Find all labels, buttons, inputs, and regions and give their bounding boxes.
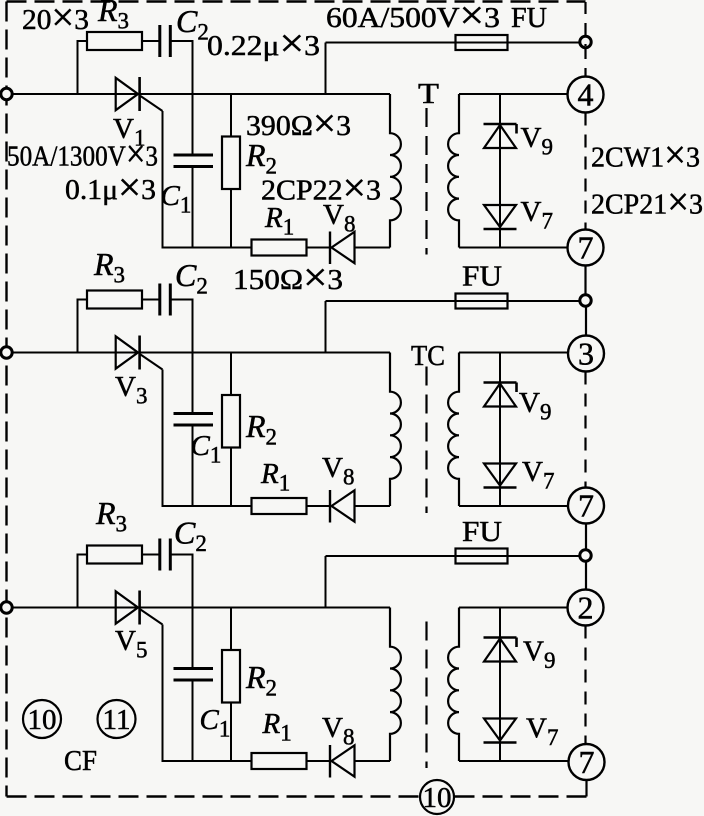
wire: fuse line section 1 xyxy=(326,42,581,44)
terminal 4 xyxy=(568,77,604,113)
capacitor C2 (section 3) xyxy=(160,539,171,571)
svg-text:7: 7 xyxy=(578,230,594,266)
svg-text:4: 4 xyxy=(578,77,594,113)
transformer secondary winding (section 2) xyxy=(448,353,459,507)
terminal 7 (section 1) xyxy=(568,230,604,266)
resistor R2 (section 1) xyxy=(222,94,240,248)
wire: dashed enclosure border (top) xyxy=(7,0,586,2)
wire: gate rail section 3 xyxy=(162,760,252,762)
diode V7 (section 2) xyxy=(484,464,517,488)
wire: V8 to transformer primary bottom section 1 xyxy=(355,247,391,249)
diode V8 (section 1) xyxy=(330,232,355,265)
svg-text:FU: FU xyxy=(462,516,502,548)
svg-text:CF: CF xyxy=(64,745,97,777)
fuse FU (section 2) xyxy=(456,294,508,309)
wire: cathode node to fuse line section 2 xyxy=(325,301,327,353)
transformer primary winding (section 3) xyxy=(390,608,401,762)
svg-text:60A/500V×​3: 60A/500V×​3 xyxy=(326,0,500,38)
wire: V9/V7 branch section 2 xyxy=(499,353,501,507)
terminal: phase input section 3 xyxy=(1,602,12,613)
wire: R1 to V8 section 2 xyxy=(307,505,332,507)
wire: dashed enclosure border (bottom) xyxy=(7,795,587,797)
wire: gate rail section 2 xyxy=(162,505,252,507)
fuse FU (section 3) xyxy=(456,549,508,564)
svg-text:2: 2 xyxy=(578,590,594,626)
wire: dashed link terminal 4 to terminal 7a xyxy=(584,113,586,230)
terminal: phase input section 2 xyxy=(1,347,12,358)
thyristor V5 (section 3) xyxy=(116,591,163,625)
node 10 (bottom border) xyxy=(420,780,454,814)
wire: link fuse terminal 2 to terminal 3 xyxy=(585,307,587,336)
wire: fuse line section 3 xyxy=(326,555,581,557)
wire: V9/V7 branch section 3 xyxy=(499,608,501,762)
wire: gate rail section 1 xyxy=(162,247,252,249)
terminal: phase input section 1 xyxy=(1,88,12,99)
resistor R3 (section 3) xyxy=(87,546,142,564)
zener diode V9 (section 1) xyxy=(484,124,517,148)
resistor R2 (section 3) xyxy=(222,608,240,762)
wire: dashed link fuse terminal 1 to terminal 4 xyxy=(584,47,586,76)
capacitor C2 (section 2) xyxy=(160,284,171,316)
wire: phase line section 2 (terminal to transformer primary) xyxy=(12,352,390,354)
wire: secondary bottom lead section 3 xyxy=(459,760,568,762)
wire: gate lead section 3 xyxy=(162,625,164,762)
transformer primary winding (section 1) xyxy=(390,94,401,248)
wire: gate lead section 1 xyxy=(162,111,164,248)
capacitor C1 (section 1) xyxy=(174,94,214,248)
fuse FU (section 1) xyxy=(456,35,508,50)
node 10 (left) xyxy=(23,700,61,738)
svg-text:3: 3 xyxy=(578,336,594,372)
wire: phase line section 3 (terminal to transformer primary) xyxy=(12,607,390,609)
svg-text:TC: TC xyxy=(411,340,445,372)
resistor R3 (section 2) xyxy=(87,291,142,309)
svg-text:20×​3: 20×​3 xyxy=(22,0,89,40)
wire: V9/V7 branch section 1 xyxy=(499,94,501,248)
transformer secondary winding (section 1) xyxy=(448,94,459,248)
resistor R1 (section 2) xyxy=(252,498,307,514)
svg-text:FU: FU xyxy=(462,261,502,293)
transformer core (section 3) xyxy=(425,622,427,769)
resistor R1 (section 3) xyxy=(252,753,307,769)
wire: fuse line section 2 xyxy=(326,300,581,302)
terminal: fuse output section 1 xyxy=(580,36,591,47)
resistor R1 (section 1) xyxy=(252,240,307,256)
wire: R3 left lead section 2 xyxy=(78,300,88,353)
wire: link terminal 7b to fuse terminal 3 xyxy=(585,524,587,552)
diode V7 (section 3) xyxy=(484,719,517,743)
capacitor C1 (section 2) xyxy=(174,353,214,507)
svg-text:7: 7 xyxy=(579,744,595,780)
wire: C2 to cathode node section 3 xyxy=(170,555,192,608)
wire: dashed link top border to fuse terminal 1 xyxy=(584,2,586,46)
terminal 3 xyxy=(568,336,604,372)
resistor R3 (section 1) xyxy=(87,32,142,50)
terminal 7 (section 2) xyxy=(568,488,604,524)
wire: gate lead section 2 xyxy=(162,370,164,507)
wire: secondary bottom lead section 1 xyxy=(459,247,568,249)
thyristor V3 (section 2) xyxy=(116,336,163,370)
terminal: fuse output section 3 xyxy=(580,550,591,561)
zener diode V9 (section 3) xyxy=(484,638,517,662)
wire: link terminal 7a to fuse terminal 2 xyxy=(584,266,586,297)
wire: C2 to cathode node section 1 xyxy=(170,41,192,94)
thyristor V1 (section 1) xyxy=(116,77,163,111)
wire: R1 to V8 section 3 xyxy=(307,760,332,762)
wire: link terminal 7c to bottom border xyxy=(585,780,587,797)
wire: secondary top lead section 2 xyxy=(459,352,568,354)
wire: R3 left lead section 3 xyxy=(78,555,88,608)
wire: phase line section 1 (terminal to transformer primary) xyxy=(12,93,390,95)
wire: R3 to C2 section 3 xyxy=(142,554,160,556)
wire: R1 to V8 section 1 xyxy=(307,247,332,249)
wire: dashed link terminal 3 to terminal 7b xyxy=(584,372,586,488)
transformer core (section 2) xyxy=(425,367,427,514)
diode V8 (section 2) xyxy=(330,490,355,523)
svg-text:T: T xyxy=(418,78,439,110)
svg-text:11: 11 xyxy=(103,704,131,736)
terminal 2 xyxy=(568,590,604,626)
wire: secondary top lead section 1 xyxy=(459,93,568,95)
terminal: fuse output section 2 xyxy=(580,295,591,306)
wire: dashed enclosure border (left) xyxy=(5,2,7,797)
wire: R3 to C2 section 1 xyxy=(142,40,160,42)
zener diode V9 (section 2) xyxy=(484,383,517,407)
capacitor C1 (section 3) xyxy=(174,608,214,762)
diode V7 (section 1) xyxy=(484,205,517,229)
wire: secondary top lead section 3 xyxy=(459,607,568,609)
wire: V8 to transformer primary bottom section 3 xyxy=(355,760,391,762)
capacitor C2 (section 1) xyxy=(160,25,171,57)
wire: cathode node to fuse line section 1 xyxy=(325,43,327,95)
node 11 xyxy=(98,700,136,738)
svg-text:7: 7 xyxy=(578,488,594,524)
svg-text:10: 10 xyxy=(28,704,57,736)
wire: dashed link terminal 2 to terminal 7c xyxy=(584,626,586,745)
svg-text:FU: FU xyxy=(511,2,547,34)
terminal 7 (section 3) xyxy=(569,744,605,780)
wire: link fuse terminal 3 to terminal 2 xyxy=(585,562,587,590)
wire: cathode node to fuse line section 3 xyxy=(325,556,327,608)
transformer secondary winding (section 3) xyxy=(448,608,459,762)
diode V8 (section 3) xyxy=(330,745,355,778)
transformer primary winding (section 2) xyxy=(390,353,401,507)
wire: C2 to cathode node section 2 xyxy=(170,300,192,353)
wire: R3 to C2 section 2 xyxy=(142,299,160,301)
wire: V8 to transformer primary bottom section 2 xyxy=(355,505,391,507)
resistor R2 (section 2) xyxy=(222,353,240,507)
wire: R3 left lead section 1 xyxy=(78,41,88,94)
wire: secondary bottom lead section 2 xyxy=(459,505,568,507)
transformer core (section 1) xyxy=(425,108,427,255)
svg-text:10: 10 xyxy=(423,782,452,814)
